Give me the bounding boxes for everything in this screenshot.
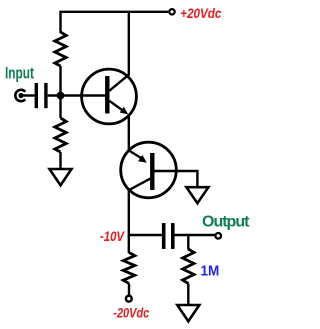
terminal Output [215,233,221,239]
svg-text:-10V: -10V [100,228,125,244]
wire C2 to output terminal [175,234,215,236]
ground GND2 [186,187,208,203]
ground GND1 [50,169,72,185]
resistor R2 [55,118,66,152]
wire branch to R4 [187,235,189,250]
resistor R4 1M [183,249,194,284]
svg-text:Input: Input [5,64,34,82]
wire Q2 base to ground [155,171,198,187]
svg-text:Output: Output [202,214,250,231]
svg-text:+20Vdc: +20Vdc [180,5,221,21]
wire R1 to node [59,66,61,96]
wire Q1 emitter to Q2 emitter [128,115,130,151]
node A junction dot [57,92,65,100]
wire R2 to ground [59,152,61,169]
capacitor C1 [35,83,48,108]
resistor R3 [123,253,135,284]
resistor R1 [55,32,66,66]
wire node to R2 [59,96,61,119]
ground GND3 [177,305,199,321]
terminal +20Vdc [169,9,174,14]
svg-text:1M: 1M [201,263,220,280]
transistor Q2 [121,142,177,198]
wire base lead Q1 [48,94,106,96]
wire -10V node horizontal [129,234,162,236]
wire top rail +20V [61,12,169,33]
svg-text:-20Vdc: -20Vdc [113,305,149,321]
terminal -20Vdc [126,296,132,302]
capacitor C2 [162,223,175,249]
wire R4 to ground [187,284,189,306]
transistor Q1 [82,69,137,124]
input jack terminal [15,90,34,101]
wire +20V rail to Q1 collector [128,12,130,76]
wire R3 to terminal [128,284,130,296]
wire Q2 collector to -10V node [128,190,130,253]
